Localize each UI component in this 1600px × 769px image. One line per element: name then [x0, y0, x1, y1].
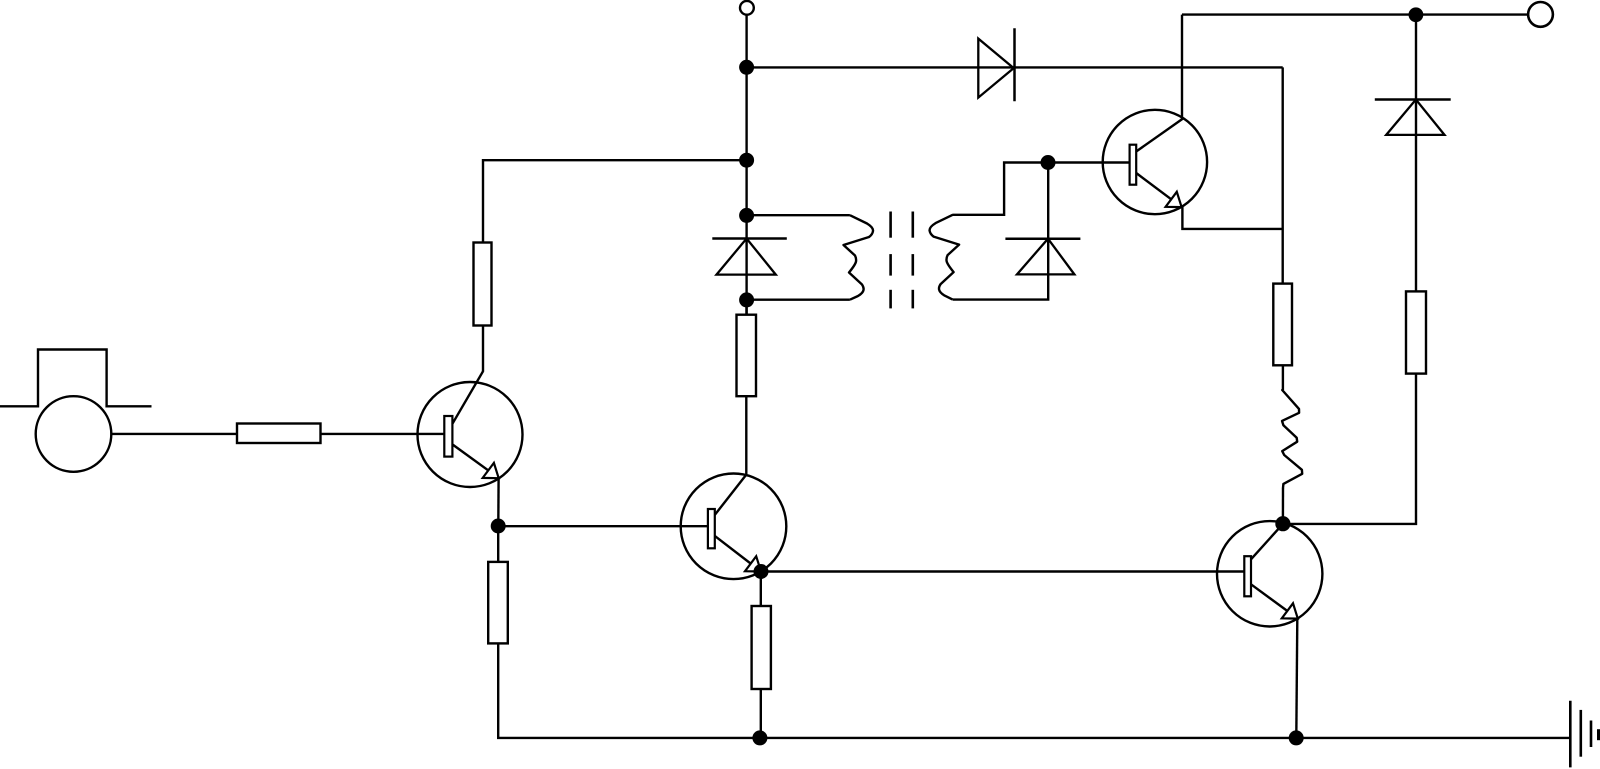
transistor Q1	[418, 371, 523, 487]
resistor R6	[1273, 284, 1292, 366]
wire top rail	[1182, 13, 1528, 15]
wire Q4 emitter to bottom rail	[1296, 619, 1297, 738]
wire Q1 collector up to R2	[482, 326, 484, 372]
node G (Q4 collector)	[1275, 516, 1290, 531]
node B	[739, 153, 754, 168]
resistor R7	[1406, 291, 1426, 373]
wire R7 up through D4 to node H	[1415, 15, 1417, 292]
wire R2 up and over to node B	[483, 160, 747, 242]
transformer TR1 secondary winding	[930, 215, 960, 300]
wire D3 anode leg	[953, 163, 1048, 300]
transistor Q2	[681, 474, 787, 580]
transformer TR1 primary winding	[747, 215, 873, 300]
resistor R5	[752, 606, 771, 689]
ground GND	[1570, 701, 1599, 768]
node D2b (primary bottom)	[739, 292, 754, 307]
node C (Q2 emitter)	[754, 564, 769, 579]
wire R5 to bottom rail	[760, 689, 762, 738]
resistor R4	[737, 315, 757, 397]
terminal T1 (top input)	[740, 1, 754, 15]
wire R4 up to node D	[745, 300, 747, 315]
wire node F down through D2 to R4 (main vertical)	[745, 67, 747, 314]
diode D4	[1375, 100, 1451, 135]
microphone MIC1	[0, 350, 152, 472]
wire R6 to L1	[1282, 365, 1284, 390]
node A	[491, 519, 506, 534]
resistor R1	[237, 424, 321, 444]
diode D2	[712, 239, 787, 275]
transistor Q4	[1217, 521, 1322, 626]
node J (bottom rail right)	[1289, 730, 1304, 745]
diode D1	[978, 28, 1014, 101]
diode D3	[1005, 239, 1080, 275]
node F	[739, 60, 754, 75]
wire top rail down to Q3 collector	[1181, 15, 1183, 120]
wire node C down to R5	[760, 572, 762, 607]
wire L1 to node G	[1282, 488, 1284, 524]
transistor Q3	[1103, 110, 1207, 214]
node I	[1041, 155, 1056, 170]
wire bottom rail	[760, 737, 1570, 739]
wire node A to Q2 base	[498, 525, 708, 527]
wire T1 down to node F	[745, 15, 747, 68]
wire node F to right corner (through D1)	[747, 66, 1283, 68]
resistor R2	[474, 243, 492, 326]
inductor L1	[1282, 390, 1302, 488]
node E (bottom rail left)	[752, 730, 767, 745]
wire node C to Q4 base	[761, 570, 1244, 572]
resistor R3	[488, 562, 508, 644]
wire mic to R1	[111, 433, 237, 435]
wire secondary top to Q3 base	[952, 163, 1129, 215]
node H	[1409, 7, 1424, 22]
node D (primary top)	[739, 208, 754, 223]
transformer TR1 core	[891, 212, 913, 309]
wire Q2 collector up to R4	[745, 396, 747, 475]
wire Q1 emitter down to node A	[497, 478, 500, 526]
wire node A down to R3	[497, 526, 499, 562]
wire R3 to bottom rail	[498, 643, 760, 738]
wire R1 to Q1 base	[321, 433, 445, 435]
wire right corner down to R6	[1281, 67, 1283, 283]
wire node G right and up to R7	[1283, 374, 1416, 524]
terminal T2 (top right output)	[1528, 2, 1553, 27]
wire Q3 emitter leg to corner	[1182, 207, 1282, 229]
